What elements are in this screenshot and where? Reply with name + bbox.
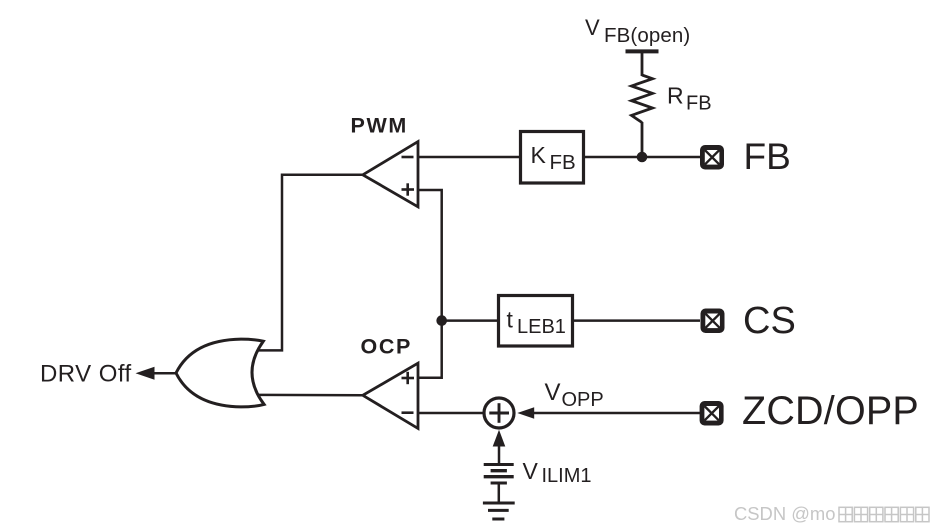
node: FB junction dot — [637, 152, 648, 163]
box K_FB — [521, 132, 584, 184]
pin CS symbol (crossed box) — [701, 309, 725, 334]
svg-text:CS: CS — [743, 300, 796, 342]
PWM plus sign — [402, 188, 415, 191]
OCP minus sign — [402, 411, 414, 414]
svg-text:LEB1: LEB1 — [517, 316, 566, 338]
svg-text:K: K — [531, 142, 547, 168]
OCP plus sign — [402, 377, 415, 380]
pin ZCD/OPP symbol (crossed box) — [700, 401, 724, 426]
PWM minus sign — [402, 156, 414, 159]
wire battery to ground — [498, 483, 501, 503]
box t_LEB1 — [499, 296, 573, 347]
wire: junction to t_LEB1 box to CS pin — [442, 319, 700, 322]
op-amp comparator PWM — [363, 142, 418, 207]
pin FB symbol (crossed box) — [700, 145, 724, 170]
svg-text:OPP: OPP — [562, 389, 604, 411]
summing node circle with plus — [484, 398, 514, 428]
wire: OCP output to OR gate bottom input — [258, 394, 363, 397]
svg-text:CSDN @mo: CSDN @mo — [734, 503, 835, 524]
svg-text:R: R — [667, 82, 684, 108]
svg-text:FB: FB — [686, 93, 712, 115]
wire: supply bar down to resistor R_FB — [641, 51, 644, 76]
watermark CSDN — [734, 503, 929, 524]
svg-text:ILIM1: ILIM1 — [542, 465, 592, 487]
ground — [483, 502, 515, 505]
svg-text:PWM: PWM — [351, 114, 408, 138]
wire: resistor bottom to FB node — [641, 122, 644, 157]
svg-text:OCP: OCP — [361, 335, 412, 359]
op-amp comparator OCP — [363, 363, 418, 428]
OR gate (mirrored, output at left) — [176, 339, 264, 407]
svg-text:FB: FB — [744, 136, 791, 177]
svg-text:V: V — [545, 379, 561, 406]
svg-text:t: t — [507, 306, 514, 332]
arrow into summing node from right (V_OPP) — [517, 407, 534, 418]
wire: OCP minus input to summing node — [418, 412, 484, 415]
svg-text:ZCD/OPP: ZCD/OPP — [742, 389, 919, 433]
svg-text:FB: FB — [550, 151, 576, 174]
battery V_ILIM1 — [484, 463, 514, 466]
arrow up into summing node bottom from battery — [498, 442, 501, 465]
svg-text:V: V — [585, 15, 600, 40]
wire: ZCD/OPP pin to summing node arrow — [530, 412, 700, 415]
svg-text:V: V — [523, 458, 539, 484]
wire: PWM plus input right then down, vertical shared net — [418, 190, 442, 378]
supply terminal bar V_FB(open) — [626, 49, 659, 53]
wire: PWM output left then down to OR gate top input — [256, 175, 363, 351]
DRV Off output arrow — [150, 372, 176, 375]
svg-text:FB(open): FB(open) — [604, 24, 690, 47]
resistor R_FB zigzag — [632, 75, 653, 123]
wire: FB net horizontal (pin FB to K_FB to PWM minus input) — [418, 156, 700, 159]
svg-text:DRV Off: DRV Off — [40, 361, 132, 388]
node: CS line junction dot — [436, 315, 447, 326]
